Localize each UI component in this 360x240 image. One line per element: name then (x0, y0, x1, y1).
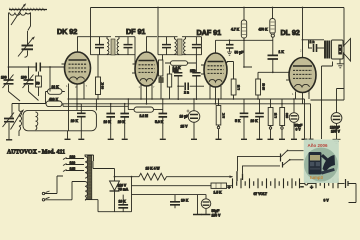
arrow line1 end (230, 175, 234, 178)
wire 33K left drop (45, 92, 47, 104)
svg-text:20 K: 20 K (118, 120, 126, 124)
terminal 680 (279, 138, 285, 140)
svg-text:1 M: 1 M (274, 112, 278, 118)
svg-text:400 K: 400 K (49, 97, 59, 101)
oscillator coil secondary (36, 112, 38, 130)
terminal 5K (241, 138, 247, 140)
oscillator shield loop (23, 110, 96, 130)
junction circle batteries (305, 182, 308, 185)
transformer taps (63, 158, 84, 172)
resistor 15K 4W zigzag (139, 173, 233, 180)
output transformer (325, 41, 329, 59)
svg-text:tump3: tump3 (310, 175, 324, 180)
resistor 10M vertical (256, 72, 261, 99)
coupling capacitor 2n grid (178, 83, 204, 91)
svg-text:1.5 K: 1.5 K (214, 191, 223, 195)
DAF91 plate line y40 (216, 39, 274, 41)
top bus (91, 8, 345, 101)
tube DAF91 (201, 40, 227, 104)
antenna coil L1 (10, 13, 31, 31)
junction circle under 470K (271, 34, 274, 37)
terminal 1M b (268, 138, 274, 140)
svg-text:AUTOVOX - Mod. 411: AUTOVOX - Mod. 411 (7, 150, 65, 156)
svg-text:150 V: 150 V (212, 214, 222, 218)
wire secondary to diode (93, 161, 115, 169)
bus junction dots y99 (97, 98, 295, 100)
trimmer block small (159, 78, 164, 100)
electrolytic 50uF 6V (289, 99, 299, 139)
terminal 10uF (191, 138, 197, 140)
svg-text:470 K: 470 K (259, 28, 269, 32)
tuning arrow through L1 (11, 3, 26, 25)
terminal 20K c (257, 138, 263, 140)
line2 (132, 185, 212, 187)
svg-text:150 V: 150 V (331, 130, 341, 134)
wires DL92 to bottom (305, 99, 311, 139)
terminal DL92 b (309, 138, 314, 140)
svg-text:125: 125 (70, 167, 76, 171)
capacitor 1K coupling (268, 37, 279, 72)
resistor 2.2M (128, 99, 163, 112)
svg-text:100: 100 (21, 76, 27, 80)
junction node grid (28, 66, 30, 68)
svg-text:2 n: 2 n (310, 40, 315, 44)
svg-text:33 K: 33 K (52, 85, 60, 89)
svg-text:50 pF: 50 pF (235, 51, 244, 55)
svg-text:10 µF: 10 µF (180, 115, 189, 119)
svg-text:150: 150 (190, 69, 196, 73)
pin numbers DK92 (66, 84, 88, 89)
pin number DL92 (292, 49, 310, 97)
svg-text:67 VOLT: 67 VOLT (254, 192, 268, 196)
svg-text:100: 100 (1, 76, 7, 80)
tube DL92 (286, 8, 316, 104)
svg-text:50µF: 50µF (212, 209, 220, 213)
oscillator coil primary (19, 104, 22, 136)
capacitor 150 a (174, 67, 182, 100)
vertical x131 (131, 177, 133, 212)
vertical to terminal (197, 195, 199, 214)
resistor 30K vertical (96, 55, 101, 99)
mains transformer (72, 155, 98, 200)
svg-text:2.2 M: 2.2 M (140, 114, 149, 118)
resistor 470K vertical (270, 8, 275, 35)
svg-text:10 K: 10 K (104, 120, 112, 124)
svg-text:2 n: 2 n (184, 91, 189, 95)
wire AF grid line (258, 71, 289, 73)
svg-text:+: + (310, 185, 313, 191)
resistor 400K (12, 101, 311, 107)
resistor 4.7K vertical (241, 8, 246, 41)
resistor 1M b vertical (268, 99, 273, 139)
node A junction (8, 66, 10, 68)
svg-text:1 M: 1 M (237, 84, 241, 90)
series capacitor 50 (36, 63, 64, 72)
svg-text:15 K 4 W: 15 K 4 W (146, 166, 161, 170)
terminal bar left (193, 214, 202, 216)
svg-text:DL 92: DL 92 (281, 28, 300, 37)
resistor 1.5K (211, 183, 233, 188)
ferrite rod antenna (9, 8, 47, 11)
trimmer capacitor 100 left (3, 67, 21, 101)
DK92 grid entry (50, 66, 65, 68)
terminal bar electro (202, 214, 211, 216)
svg-text:50: 50 (36, 82, 40, 86)
svg-text:20 K: 20 K (251, 119, 259, 123)
junction dot 150a (177, 85, 179, 87)
svg-text:Año 2006: Año 2006 (308, 143, 329, 148)
svg-text:DK 92: DK 92 (57, 27, 77, 36)
collector stamp (304, 140, 339, 184)
oscillator trimmer (3, 104, 15, 140)
capacitor 20K c (255, 99, 264, 139)
tone capacitor 2n (309, 40, 325, 52)
oscillator tuning arrow (11, 109, 25, 129)
wire to 9V (308, 183, 316, 185)
variable capacitor C1 (18, 31, 35, 57)
capacitor 50pF (226, 40, 234, 55)
svg-text:4.7 K: 4.7 K (231, 28, 240, 32)
svg-text:DAF 91: DAF 91 (197, 28, 222, 37)
mains selector plug (42, 176, 72, 201)
svg-text:–: – (301, 185, 304, 191)
svg-text:5.0 K: 5.0 K (155, 120, 164, 124)
battery 9V (316, 178, 338, 188)
resistor 1M vertical (227, 62, 236, 100)
battery right plug (338, 179, 356, 203)
oscillator trimmer terminal (6, 139, 12, 141)
terminal DL92 a (302, 138, 308, 140)
rectifier diode (110, 169, 120, 212)
capacitor 150 b (192, 55, 200, 100)
wire OT return (322, 62, 333, 140)
wire battery minus (300, 183, 305, 185)
bus line y106 (63, 104, 128, 107)
wire grid node line y67 (9, 66, 37, 68)
IF transformer T1 (91, 8, 136, 65)
junction dots y103.8 (76, 103, 283, 105)
plug bars line1 (236, 171, 238, 181)
ground under 120uF (333, 139, 341, 143)
switch feed wires (238, 156, 281, 171)
switch contacts (281, 150, 304, 168)
svg-text:5 K: 5 K (235, 119, 241, 123)
svg-text:20 K: 20 K (71, 119, 79, 123)
svg-text:220: 220 (70, 155, 76, 159)
svg-text:30 K: 30 K (101, 82, 105, 89)
terminal 5.0K (160, 138, 166, 140)
wire antenna left drop (8, 13, 10, 80)
terminal loop a (65, 138, 71, 140)
resistor 680 vertical (280, 99, 285, 139)
wire plate to output transformer (303, 39, 325, 41)
svg-text:1 K: 1 K (279, 50, 285, 54)
shield loop terminals (67, 131, 69, 139)
svg-text:680: 680 (285, 113, 289, 118)
svg-text:75 mA: 75 mA (118, 188, 129, 192)
line3 (132, 194, 207, 196)
svg-text:DF 91: DF 91 (126, 27, 145, 36)
terminal 2K (216, 138, 222, 140)
capacitor 5.0K (159, 110, 168, 139)
loudspeaker (332, 39, 351, 68)
svg-text:160: 160 (70, 161, 76, 165)
wire DAF diode load (244, 40, 252, 67)
capacitor 10K (106, 104, 115, 139)
filter capacitor 10K b (170, 195, 180, 209)
svg-text:10 K: 10 K (181, 199, 189, 203)
capacitor 5K (240, 99, 249, 139)
svg-text:25 V: 25 V (181, 125, 189, 129)
terminal 10K (108, 138, 114, 140)
svg-text:+: + (228, 185, 231, 191)
resistor 2K vertical small (167, 66, 171, 100)
electrolytic 120uF 150V (331, 89, 344, 140)
trimmer capacitor 100 right (23, 67, 39, 101)
wire loop to B+ (95, 99, 97, 110)
tube DK92 (62, 37, 91, 131)
tube DF91 (132, 37, 158, 104)
resistor 2K vertical (216, 99, 221, 139)
line1 B+ (115, 176, 140, 178)
svg-text:10 M: 10 M (262, 83, 266, 90)
bottom return line (98, 200, 132, 212)
node B plus (114, 176, 116, 178)
resistor below T2 vertical (159, 55, 163, 78)
filter capacitor 10K a (118, 195, 128, 212)
svg-text:10 K: 10 K (119, 200, 127, 204)
bus line B+ y99 (68, 98, 305, 100)
battery 67V (233, 178, 300, 188)
electrolytic 50uF 150V (201, 195, 211, 214)
terminal 50uF 6V (291, 138, 297, 140)
resistor 2.2K horizontal (165, 61, 196, 66)
wire grid to DK92 (49, 67, 51, 92)
svg-text:6 V: 6 V (296, 128, 302, 132)
IF transformer T2 (158, 8, 202, 56)
terminal 20K b (122, 138, 128, 140)
capacitor 20K (77, 104, 86, 139)
capacitor 20K b (120, 104, 129, 139)
trimmer box 50 (36, 72, 42, 97)
resistor 33K (46, 89, 65, 95)
svg-text:150: 150 (173, 69, 179, 73)
terminal 20K (78, 138, 84, 140)
svg-text:9 V: 9 V (324, 199, 330, 203)
pin numbers DF91 (139, 85, 156, 89)
electrolytic 10uF 25V (187, 99, 200, 139)
